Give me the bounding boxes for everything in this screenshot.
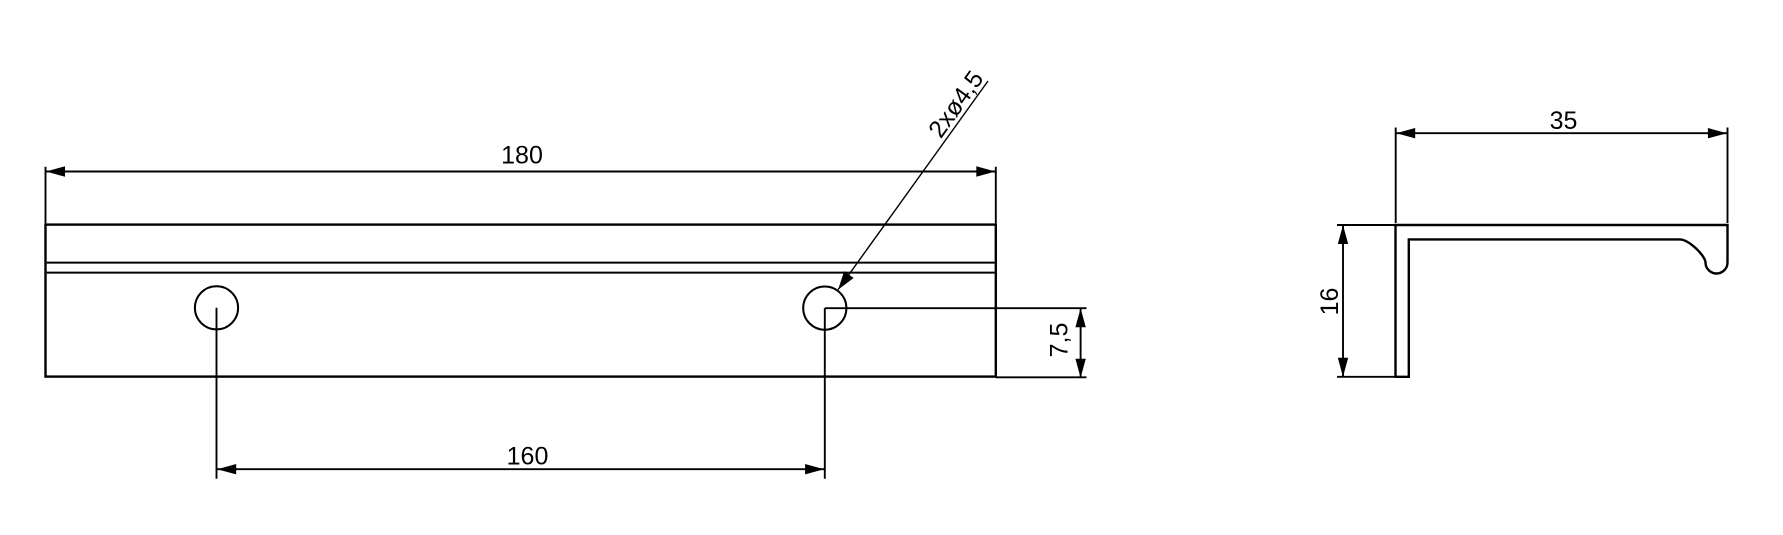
svg-text:16: 16 <box>1316 288 1344 316</box>
svg-text:160: 160 <box>507 443 549 471</box>
svg-text:7,5: 7,5 <box>1046 323 1074 358</box>
svg-text:180: 180 <box>501 142 543 170</box>
svg-text:35: 35 <box>1550 107 1578 135</box>
